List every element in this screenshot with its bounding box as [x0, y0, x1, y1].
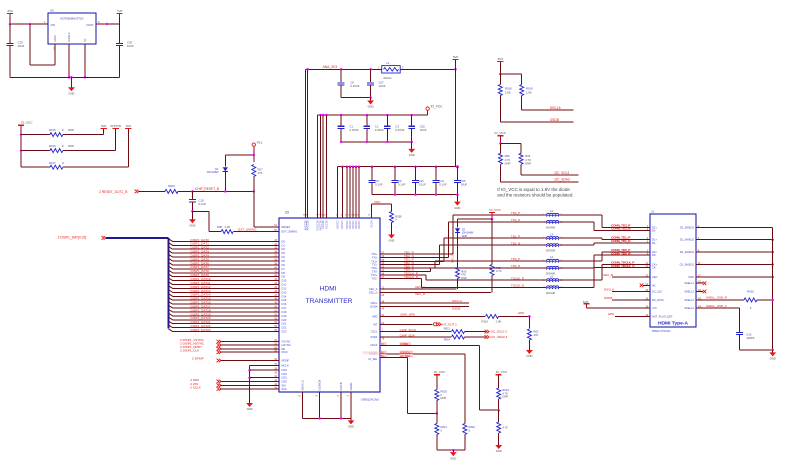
svg-text:R03: R03 — [534, 330, 539, 334]
svg-text:I2S1: I2S1 — [282, 376, 288, 380]
svg-text:D18: D18 — [282, 310, 287, 314]
svg-text:RESET: RESET — [282, 225, 291, 229]
svg-text:DC_CLK: DC_CLK — [652, 290, 663, 294]
svg-text:IDCK: IDCK — [282, 350, 288, 354]
wire bypass gnd rail — [372, 193, 459, 196]
svg-text:DSDB: DSDB — [604, 296, 612, 300]
node VDC — [368, 200, 392, 218]
svg-text:VCC10: VCC10 — [324, 220, 328, 229]
power flag 5V0 strap — [101, 124, 107, 135]
svg-text:I2S0: I2S0 — [282, 379, 288, 383]
svg-text:0.1UF: 0.1UF — [199, 202, 207, 206]
svg-text:TX1+: TX1+ — [371, 259, 378, 263]
svg-text:D0_SHIELD: D0_SHIELD — [680, 250, 694, 254]
resistor R015 — [21, 128, 104, 136]
wire DISP1_DAT4 — [169, 253, 286, 259]
wire DISP1_DAT18 — [169, 308, 287, 314]
capacitor C9 — [392, 167, 406, 195]
regulator U6 — [48, 9, 96, 45]
svg-text:D15: D15 — [282, 298, 287, 302]
pin 6 D1- — [647, 239, 657, 245]
resistor R116 1.0K — [482, 314, 530, 323]
svg-text:R002: R002 — [747, 289, 754, 293]
svg-text:GND: GND — [454, 206, 460, 210]
wire DISP1_DAT6 — [169, 261, 286, 267]
svg-text:4.7K: 4.7K — [502, 426, 508, 430]
ground divider1 — [450, 450, 457, 460]
power flag 5V0 pullup — [497, 57, 503, 74]
wire reset to chip — [254, 191, 279, 227]
wire DISP1_DAT1 — [169, 242, 286, 248]
wire DISP1_DAT13 — [169, 289, 287, 295]
svg-text:TDCLK_N: TDCLK_N — [511, 284, 524, 288]
wire DISP1_DAT21 — [169, 320, 287, 326]
wire DISP1_DAT10 — [169, 277, 287, 283]
wire D1_SHIELD — [696, 238, 774, 241]
svg-text:DSCL: DSCL — [371, 301, 378, 305]
ground chip bottom — [348, 418, 355, 428]
svg-text:10UF: 10UF — [18, 44, 25, 48]
power flag 5V0 main — [452, 55, 458, 69]
svg-text:HDMI: HDMI — [320, 286, 337, 293]
svg-text:D2: D2 — [282, 247, 286, 251]
svg-text:CSCL: CSCL — [371, 330, 378, 334]
pin I2S1 — [250, 375, 288, 380]
svg-text:D13: D13 — [282, 290, 287, 294]
pin CEC_A wire — [369, 285, 457, 291]
svg-text:ENABLE: ENABLE — [68, 32, 71, 42]
svg-text:J1: J1 — [651, 209, 654, 213]
resistor R08 4.3K — [209, 225, 279, 234]
node SHELL_GND_C — [696, 304, 740, 308]
svg-text:I2C_SCL0 3: I2C_SCL0 3 — [491, 330, 508, 334]
svg-text:SCK: SCK — [282, 387, 288, 391]
node DISP1_VSYNC — [180, 338, 291, 344]
ground C19 — [189, 210, 196, 227]
svg-text:CONN_TD1_N: CONN_TD1_N — [611, 239, 630, 243]
node CHIP_HPD — [372, 312, 485, 318]
pin 1 D2+ — [647, 224, 658, 230]
svg-text:R116: R116 — [482, 319, 489, 323]
wire VOUT to 7V0 — [96, 17, 120, 25]
node SD0 — [190, 378, 287, 384]
svg-text:IO_VCC: IO_VCC — [21, 120, 33, 124]
svg-text:GND: GND — [409, 153, 415, 157]
svg-text:IO_VCC: IO_VCC — [496, 370, 508, 374]
svg-text:CSDA: CSDA — [370, 335, 377, 339]
pin CEC_D wire — [369, 290, 491, 297]
wire TD1_N — [372, 245, 547, 267]
svg-text:DSDA: DSDA — [370, 304, 377, 308]
power flag 3V3 strap — [125, 124, 131, 167]
svg-text:TD1_P: TD1_P — [511, 234, 520, 238]
wire IO cap gnd rail — [340, 141, 413, 144]
junction VIN node — [9, 23, 32, 26]
wire U6 ENABLE pin — [68, 44, 71, 79]
svg-text:1N4148W: 1N4148W — [207, 170, 219, 174]
svg-text:7V0: 7V0 — [117, 9, 123, 13]
svg-text:CK_SHIELD: CK_SHIELD — [680, 263, 695, 267]
wire CONN_TD1_N — [559, 243, 650, 245]
svg-text:DISP1_DAT23: DISP1_DAT23 — [191, 328, 211, 332]
svg-text:C8: C8 — [375, 179, 379, 183]
svg-text:L1: L1 — [386, 61, 390, 65]
svg-text:0.33UF: 0.33UF — [350, 84, 359, 88]
svg-text:47K: 47K — [534, 333, 539, 337]
svg-text:2.0K: 2.0K — [505, 90, 511, 94]
ground divider2 — [495, 444, 502, 454]
svg-text:CDCA: CDCA — [370, 343, 378, 347]
resistor R016 — [21, 144, 116, 152]
node DISP1_CLK — [180, 348, 288, 354]
svg-text:GND: GND — [526, 354, 532, 358]
svg-text:C10: C10 — [419, 179, 424, 183]
node I2C_SDA0 — [485, 335, 508, 339]
wire TD2_N — [372, 222, 547, 260]
pin names top supplies — [304, 220, 374, 231]
pin 16 DC_DATA — [645, 296, 664, 302]
common-mode choke L3 — [543, 232, 562, 252]
svg-text:0.33UF: 0.33UF — [395, 128, 404, 132]
svg-text:IO_VCC: IO_VCC — [495, 131, 507, 135]
capacitor C30 — [116, 24, 134, 77]
wire CONN_TDCLK_P — [559, 265, 650, 281]
node CONN_TDCLK_P — [611, 261, 635, 265]
resistor R06 4.7K DNP — [499, 143, 511, 181]
capacitor C2 — [363, 115, 384, 142]
svg-text:and the resistors should be po: and the resistors should be populated. — [497, 192, 573, 197]
svg-text:3V3: 3V3 — [7, 9, 13, 13]
node SPDIF — [192, 357, 290, 363]
node SCLK — [190, 386, 287, 392]
ground ANA filter — [367, 98, 374, 109]
svg-text:GND: GND — [770, 357, 776, 361]
diode D2 1N4148W DNP — [455, 219, 474, 240]
svg-text:GND: GND — [348, 425, 354, 429]
wire VCC10 pins — [318, 115, 327, 218]
svg-text:CEC_D: CEC_D — [415, 292, 426, 296]
svg-text:60ohm: 60ohm — [384, 76, 393, 80]
svg-text:I2C_SDA3: I2C_SDA3 — [555, 178, 570, 182]
svg-text:D2_SHIELD: D2_SHIELD — [680, 225, 694, 229]
svg-text:SHELL_GND_C: SHELL_GND_C — [706, 304, 727, 308]
svg-text:10UF: 10UF — [461, 182, 468, 186]
svg-text:DSDB: DSDB — [550, 118, 559, 122]
svg-text:2 RESET_OUT1_B: 2 RESET_OUT1_B — [99, 190, 128, 194]
svg-text:GND: GND — [688, 275, 694, 279]
power flag 3V3 — [7, 9, 13, 17]
pin 3 D2- — [647, 227, 657, 233]
svg-text:2.0K: 2.0K — [526, 90, 532, 94]
svg-text:VDC: VDC — [374, 200, 381, 204]
svg-text:2 DISP1_DAT[0:23]: 2 DISP1_DAT[0:23] — [58, 235, 87, 239]
common-mode choke L2 — [543, 209, 562, 229]
svg-text:I2S2: I2S2 — [282, 372, 288, 376]
node DISP1_HSYNC — [180, 341, 291, 347]
svg-text:R014: R014 — [444, 338, 451, 342]
svg-text:DSDB: DSDB — [452, 307, 460, 311]
svg-text:R013: R013 — [444, 327, 451, 331]
resistor R013 — [444, 327, 486, 334]
node DSCLA connector side — [604, 287, 650, 291]
resistor R017 — [21, 161, 128, 169]
svg-text:VLL: VLL — [257, 140, 263, 144]
svg-text:5V0_SB: 5V0_SB — [451, 253, 455, 263]
svg-text:HPD: HPD — [518, 311, 525, 315]
svg-text:TD1_N: TD1_N — [511, 241, 520, 245]
node CONN_TD1_P — [611, 236, 630, 240]
node CEC_B — [603, 273, 650, 277]
wire DISP1_DAT11 — [169, 281, 287, 287]
svg-text:TXC+: TXC+ — [371, 273, 378, 277]
svg-text:D5: D5 — [282, 259, 286, 263]
wire bottom pins to gnd — [303, 392, 352, 420]
wire U6 GND3 pin — [30, 24, 55, 65]
svg-text:D20: D20 — [282, 318, 287, 322]
node CHIP_SCLK — [371, 328, 451, 334]
pin 13 CEC — [645, 274, 657, 280]
pin G1 SHELL1 — [684, 280, 701, 286]
svg-text:3V3TTR: 3V3TTR — [110, 124, 121, 128]
svg-text:SHELL4: SHELL4 — [684, 306, 694, 310]
svg-text:TX1-: TX1- — [372, 263, 378, 267]
pin G4 SHELL4 — [684, 305, 701, 311]
svg-text:+5V: +5V — [652, 306, 657, 310]
pin numbers top — [303, 215, 360, 217]
capacitor C1 — [338, 115, 359, 142]
junction divider2 — [497, 409, 500, 412]
svg-text:L3: L3 — [550, 232, 554, 236]
no-connect SHELL2 — [696, 290, 706, 294]
svg-text:NCP565MN33T2G: NCP565MN33T2G — [60, 17, 83, 21]
svg-text:DC_DATA: DC_DATA — [652, 298, 664, 302]
junction 5V0 pullup — [499, 73, 522, 76]
svg-text:CONN_TDCLK_N: CONN_TDCLK_N — [611, 264, 634, 268]
resistor R019 2.0K — [520, 74, 533, 110]
wire shield rail — [772, 227, 774, 350]
common-mode choke L5 — [543, 274, 562, 294]
svg-text:D22: D22 — [282, 326, 287, 330]
node IO_SEL — [368, 354, 413, 361]
pin numbers bottom — [298, 396, 350, 398]
svg-text:100PF: 100PF — [746, 336, 755, 340]
svg-text:IO_VCC: IO_VCC — [434, 370, 446, 374]
resistor R07 47K — [252, 155, 263, 192]
wire DISP1_DAT0 — [169, 238, 286, 244]
svg-text:DNP: DNP — [461, 276, 467, 280]
node WS — [190, 382, 286, 388]
power flag VLL — [252, 140, 263, 149]
wire TDCLK_N — [371, 275, 546, 288]
resistor R02 4.7K — [490, 219, 502, 293]
wire DISP1_DAT12 — [169, 285, 287, 291]
svg-text:TX2-: TX2- — [372, 256, 378, 260]
capacitor C11 — [433, 167, 447, 195]
node CONN_TD2_N — [611, 227, 631, 231]
wire shield gnd rail — [740, 349, 774, 352]
svg-text:10UF: 10UF — [379, 84, 386, 88]
svg-text:INT_OUT 2: INT_OUT 2 — [442, 322, 458, 326]
svg-text:3V3: 3V3 — [126, 124, 132, 128]
resistor R002 0 — [744, 289, 774, 310]
wire CONN_TD2_N — [559, 222, 650, 231]
svg-text:D23: D23 — [282, 330, 287, 334]
svg-text:D16: D16 — [282, 302, 287, 306]
resistor R023 4.7K DNP — [497, 375, 510, 410]
svg-text:C05: C05 — [461, 179, 466, 183]
wire KSVDL strap — [408, 357, 438, 414]
wire TDCLK_P — [371, 271, 547, 280]
node RESET_OUT1_B — [99, 190, 139, 194]
svg-text:R001: R001 — [168, 184, 175, 188]
wire AVCC33 pins — [306, 69, 308, 218]
wire 3V3 to VIN — [10, 17, 48, 24]
svg-text:ANA_3V3: ANA_3V3 — [323, 65, 338, 69]
pin 18 +5V — [645, 305, 657, 311]
svg-text:D7: D7 — [282, 267, 286, 271]
svg-text:DNP: DNP — [505, 162, 511, 166]
no-connect NC pin — [640, 284, 650, 288]
svg-text:0.1UF: 0.1UF — [439, 182, 447, 186]
svg-text:TD0_N: TD0_N — [511, 264, 520, 268]
svg-text:GND: GND — [496, 449, 502, 453]
svg-text:TDCLK_N: TDCLK_N — [404, 275, 418, 279]
svg-text:GND: GND — [368, 105, 374, 109]
svg-text:0.1UF: 0.1UF — [398, 182, 406, 186]
svg-text:SPDIF: SPDIF — [282, 359, 290, 363]
pin 11 CK_SHIELD — [680, 261, 701, 267]
power flag 7V0 — [116, 9, 122, 17]
node I2C_SCL3 — [521, 171, 578, 175]
svg-text:D11: D11 — [282, 283, 287, 287]
resistor R024 4.7K — [497, 410, 508, 443]
wire IOVCC pins — [338, 167, 359, 218]
svg-text:R016: R016 — [49, 144, 56, 148]
capacitor C8 — [369, 167, 383, 195]
svg-text:DNP: DNP — [68, 128, 74, 132]
wire U6 NC pin — [84, 44, 87, 79]
svg-text:D1_SHIELD: D1_SHIELD — [680, 238, 694, 242]
power flag IO_VCC main — [426, 104, 443, 112]
svg-text:0.1UF: 0.1UF — [419, 182, 427, 186]
capacitor C05 — [454, 167, 468, 195]
svg-text:GND: GND — [247, 407, 253, 411]
svg-text:0.33UF: 0.33UF — [350, 128, 359, 132]
svg-text:TDCLK_P: TDCLK_P — [511, 276, 524, 280]
svg-text:SHELL3: SHELL3 — [684, 298, 694, 302]
wire D0_SHIELD — [696, 251, 774, 254]
connector J1 HDMI Type-A body — [650, 209, 696, 333]
svg-text:5V0: 5V0 — [498, 57, 504, 61]
svg-text:I2S3: I2S3 — [282, 368, 288, 372]
svg-text:C9: C9 — [398, 179, 402, 183]
svg-text:TX2+: TX2+ — [371, 252, 378, 256]
pin G2 SHELL2 — [684, 288, 701, 294]
wire TD0_N — [372, 268, 547, 274]
pin MCLK — [250, 363, 289, 368]
capacitor C29 — [7, 24, 25, 77]
svg-text:D14: D14 — [282, 294, 287, 298]
svg-text:1.0K: 1.0K — [496, 319, 502, 323]
svg-text:5V0: 5V0 — [101, 124, 107, 128]
wire DISP1_DAT19 — [169, 312, 287, 318]
op-amp U5 HDMI transmitter body — [279, 211, 380, 402]
wire D2 to R09 — [457, 240, 459, 268]
wire TD0_P — [371, 261, 546, 270]
wire VLL branch — [225, 149, 255, 156]
pin 14 NC — [645, 282, 656, 288]
node CHIP_SDA — [370, 333, 451, 340]
svg-text:EXT_SWING: EXT_SWING — [238, 228, 257, 232]
svg-text:VSYNC: VSYNC — [282, 340, 291, 344]
capacitor C6 — [338, 69, 360, 97]
node I2C_SCL0 — [485, 330, 508, 334]
wire CONN_TD1_P — [559, 238, 650, 240]
wire CONN_TD0_N — [559, 255, 650, 268]
svg-text:D17: D17 — [282, 306, 287, 310]
diode D1 1N4148W — [207, 155, 228, 193]
svg-text:GND: GND — [189, 224, 195, 228]
wire DISP1_DAT2 — [169, 246, 286, 252]
svg-text:IO_SEL: IO_SEL — [368, 357, 378, 361]
pin I2S3 — [250, 368, 288, 373]
svg-text:IOVCC: IOVCC — [357, 220, 361, 228]
wire IO_VCC vertical strap — [20, 130, 23, 168]
svg-text:NC: NC — [84, 38, 87, 42]
node DSDB connector side — [604, 296, 650, 300]
wire CONN_TD0_P — [559, 252, 650, 261]
svg-text:DSCLA: DSCLA — [604, 287, 614, 291]
svg-text:NC: NC — [652, 283, 656, 287]
svg-text:TD0_P: TD0_P — [511, 257, 520, 261]
svg-text:TD2_P: TD2_P — [511, 211, 520, 215]
wire DISP1_DAT16 — [169, 301, 287, 307]
wire 5V0 rail vertical — [455, 69, 457, 166]
svg-text:VCCA: VCCA — [369, 220, 373, 227]
resistor R014 — [444, 335, 486, 342]
svg-text:TD2_N: TD2_N — [511, 218, 520, 222]
capacitor C10 — [412, 167, 426, 195]
node CONN_TD0_P — [611, 248, 630, 252]
wire DISP1_DAT5 — [169, 257, 286, 263]
svg-text:I2C_SCL3: I2C_SCL3 — [555, 171, 570, 175]
svg-text:L4: L4 — [550, 255, 554, 259]
node DSDB chip side — [370, 304, 469, 310]
svg-text:D6: D6 — [282, 263, 286, 267]
svg-text:IOVCC: IOVCC — [336, 220, 340, 228]
svg-text:VOUT: VOUT — [86, 23, 94, 27]
wire DISP1_DAT22 — [169, 324, 287, 330]
svg-text:CEC_A: CEC_A — [415, 285, 425, 289]
svg-text:HPD: HPD — [372, 314, 378, 318]
wire C19 to R08 — [192, 211, 209, 231]
svg-text:TXC-: TXC- — [371, 277, 377, 281]
node DISP1_DRDY — [180, 345, 285, 351]
svg-text:DSCLA: DSCLA — [550, 106, 562, 110]
ferrite bead L1 — [378, 61, 404, 80]
wire DISP1_DAT8 — [169, 269, 286, 275]
wire TD2_P — [371, 215, 546, 256]
node INT_OUT — [373, 322, 457, 327]
svg-text:4.3K: 4.3K — [225, 225, 231, 229]
wire DISP1_DAT3 — [169, 250, 286, 256]
wire divider1 bottom — [437, 449, 465, 452]
svg-text:4.7K: 4.7K — [496, 269, 502, 273]
svg-text:HOT_PLUG_DET: HOT_PLUG_DET — [652, 314, 673, 318]
svg-text:D0-: D0- — [652, 253, 656, 257]
svg-text:DNP: DNP — [462, 234, 468, 238]
wire GND pin17 — [696, 276, 774, 279]
